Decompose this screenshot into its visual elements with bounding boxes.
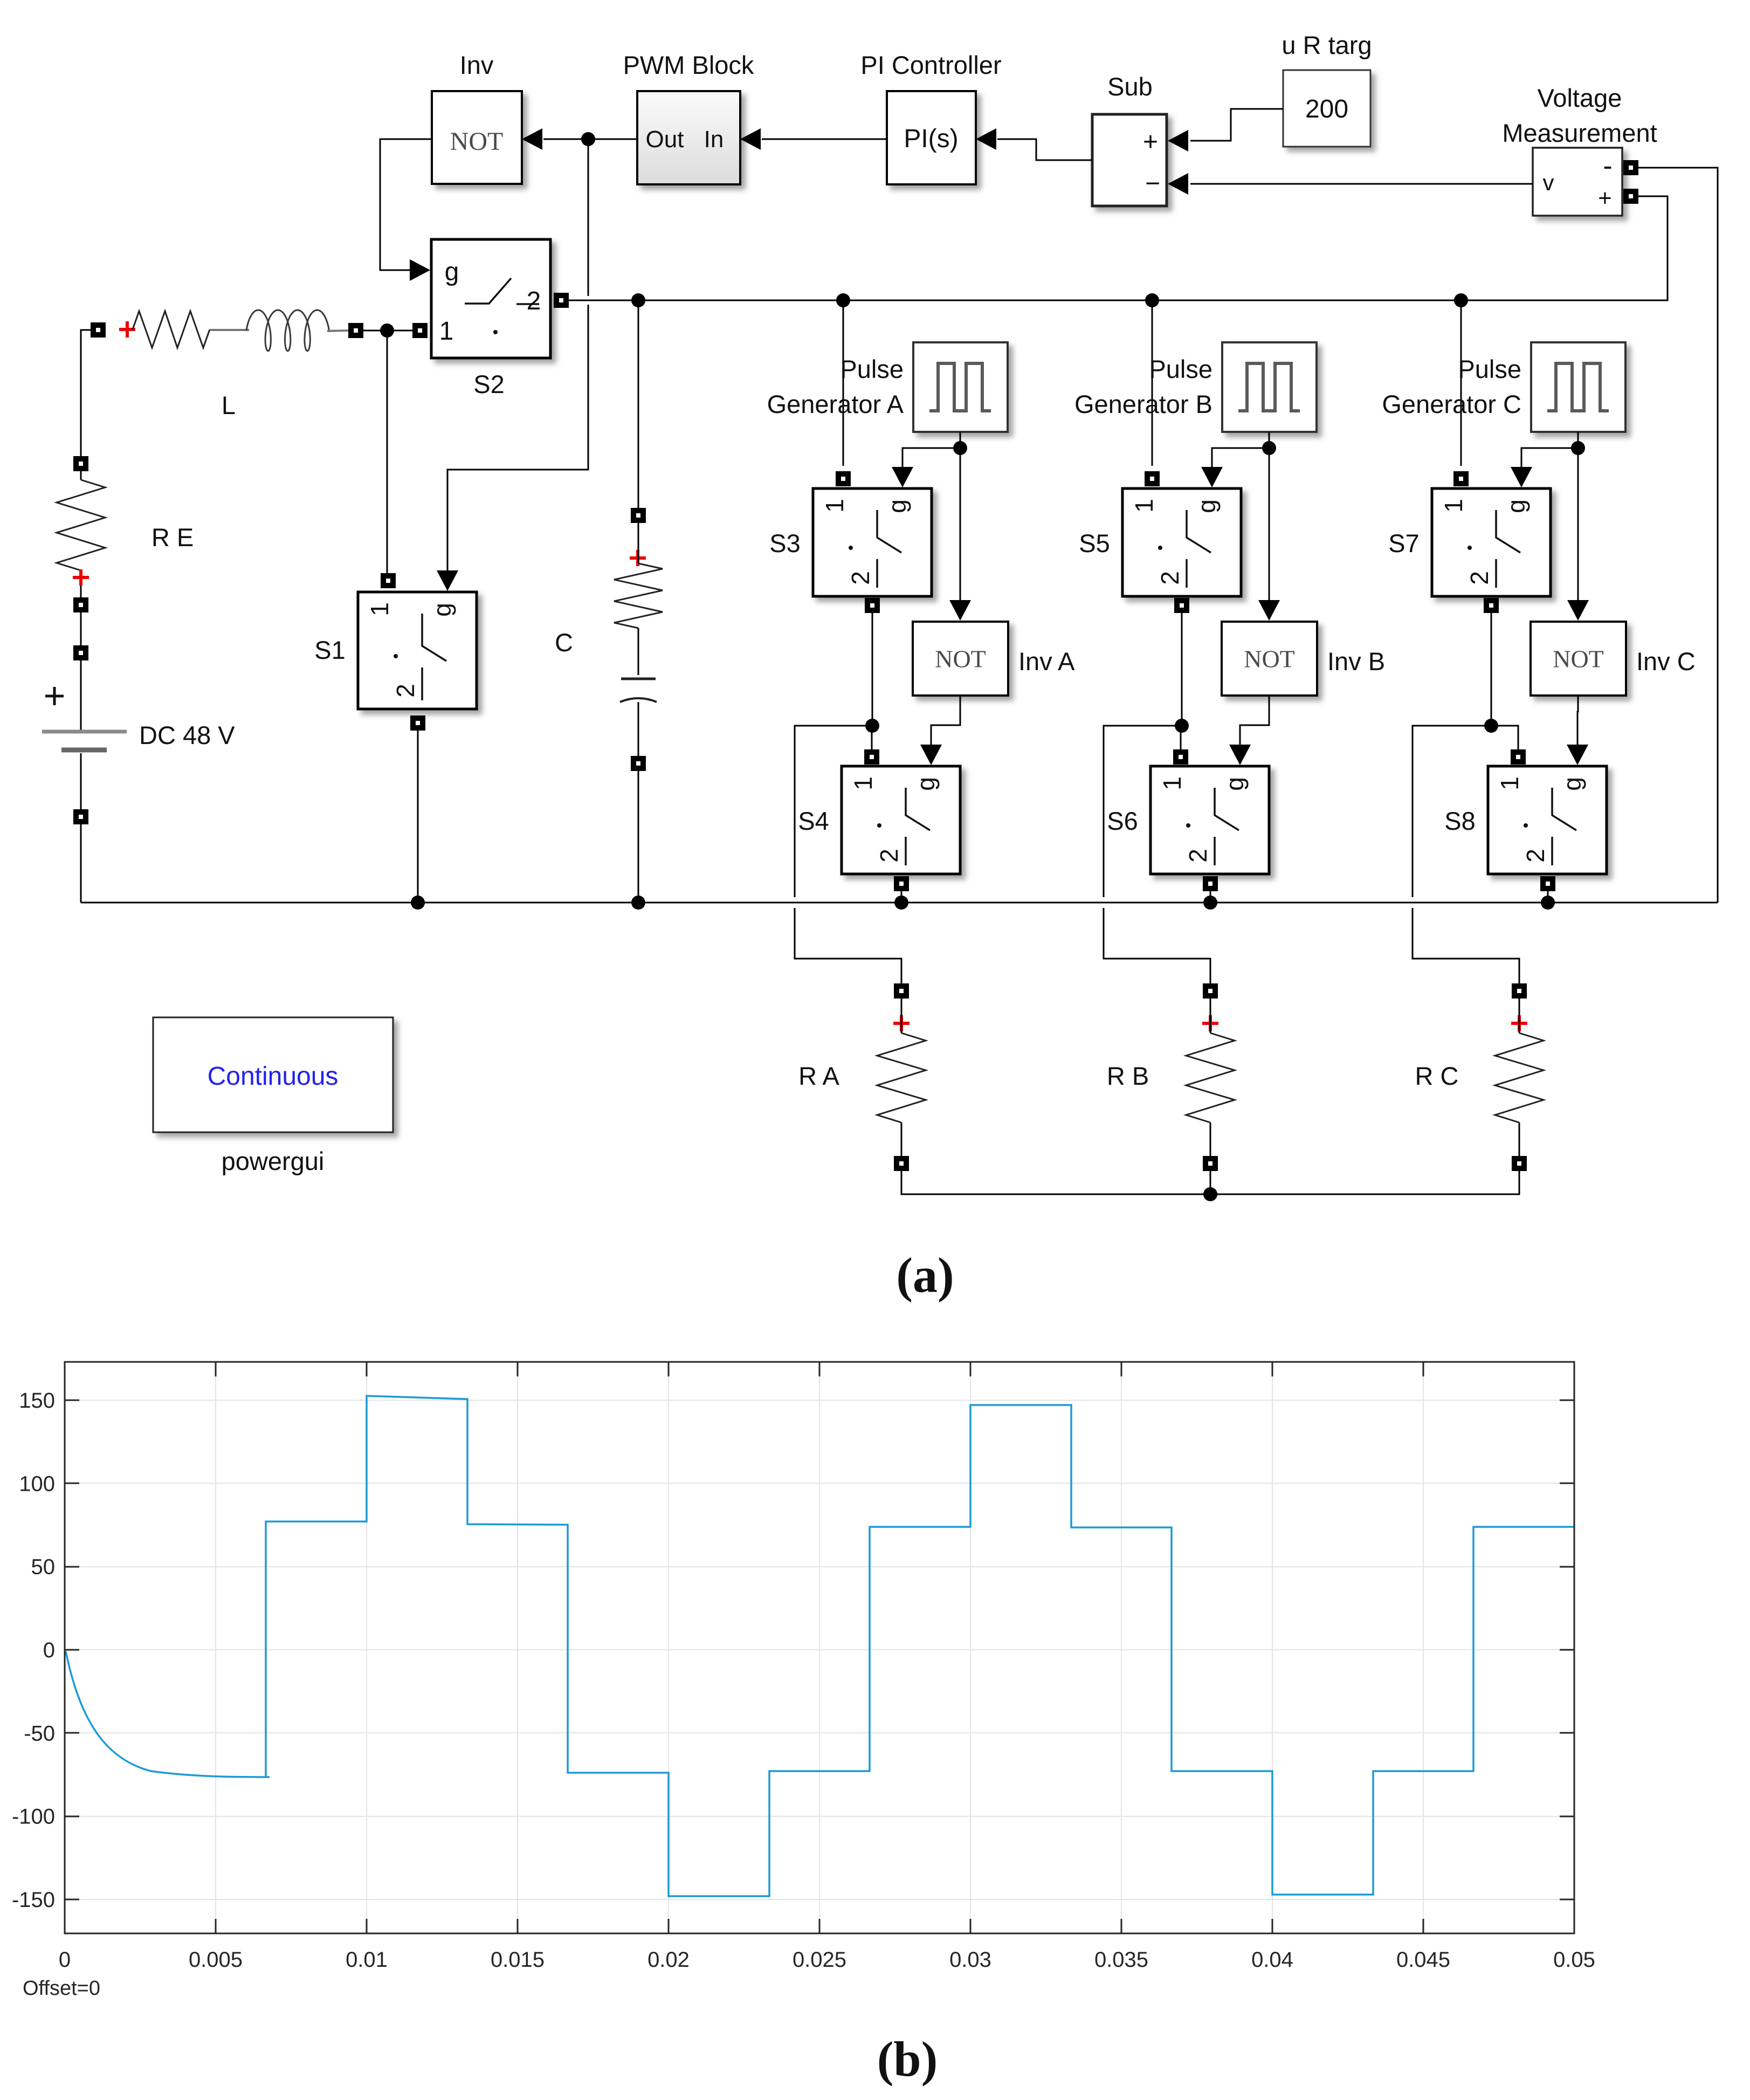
port S1 output 2 [410,715,425,731]
logic NOT block Inv C [1531,622,1626,696]
svg-text:In: In [704,126,724,153]
svg-text:R E: R E [151,523,194,552]
svg-text:g: g [883,499,911,513]
svg-text:Offset=0: Offset=0 [23,1977,100,2000]
wire junction B to load resistor R B [1104,726,1210,983]
svg-text:S8: S8 [1444,807,1476,835]
port S5 input 1 [1145,471,1160,486]
polarity plus of RL branch [119,321,135,338]
wire S8 output to bottom bus [1547,891,1549,903]
svg-text:0.01: 0.01 [346,1948,388,1972]
svg-text:0.03: 0.03 [949,1948,991,1972]
junction bus S6 [1203,896,1217,910]
svg-text:0.015: 0.015 [491,1948,545,1972]
port S6 input 1 [1173,749,1188,765]
svg-text:2: 2 [1156,571,1184,585]
wire S5 output to S6 input 1 [1181,613,1182,749]
port S4 input 1 [864,749,879,765]
voltage measurement block VM [1533,148,1622,216]
powergui block [153,1017,393,1132]
svg-text:150: 150 [19,1389,55,1413]
junction node after L [380,323,394,338]
svg-text:R A: R A [798,1062,839,1090]
svg-text:powergui: powergui [222,1147,325,1175]
label R A [798,1062,839,1090]
neutral rail joining load resistors [901,1171,1519,1194]
port C top [631,508,646,523]
wire inductor to right port [327,331,349,331]
constant block 200 [1283,70,1370,147]
wire C bottom to bus [638,771,639,903]
port R A bottom [894,1156,909,1171]
svg-text:0.005: 0.005 [189,1948,243,1972]
junction top bus phase B [1145,293,1159,307]
load resistor R A [877,999,926,1156]
svg-text:S1: S1 [314,636,346,664]
wire PI output to PWM In [740,128,887,150]
port RL branch left [91,322,106,338]
battery plus sign [45,687,64,705]
logic NOT block Inv A [913,622,1008,696]
svg-text:Inv A: Inv A [1018,647,1075,676]
svg-text:1: 1 [1158,776,1186,790]
port S7 output 2 [1484,598,1499,613]
svg-text:0.04: 0.04 [1251,1948,1293,1972]
svg-text:NOT: NOT [1244,645,1295,673]
wire Sub output to PI controller input [976,128,1092,160]
port RE bottom [73,597,88,612]
svg-text:Inv: Inv [460,51,494,79]
svg-text:-100: -100 [12,1805,55,1829]
svg-text:1: 1 [849,776,877,790]
svg-text:0.035: 0.035 [1094,1948,1148,1972]
polarity plus of RE [73,569,89,586]
wire PWM Out to NOT input [522,128,637,150]
svg-text:2: 2 [1465,571,1493,585]
label Pulse Generator C [1382,355,1521,418]
wire battery to ground bus [80,824,82,903]
port R B bottom [1203,1156,1218,1171]
junction bus S4 [894,896,908,910]
svg-text:2: 2 [875,849,903,863]
svg-text:Inv B: Inv B [1327,647,1385,676]
wire S6 output to bottom bus [1210,891,1211,903]
svg-text:L: L [222,391,236,419]
svg-text:2: 2 [527,287,541,315]
label Pulse Generator B [1074,355,1212,418]
battery DC 48 V symbol [42,660,127,809]
svg-text:2: 2 [391,684,419,698]
svg-text:Continuous: Continuous [208,1062,339,1091]
svg-text:PI(s): PI(s) [904,125,958,153]
chart plot area [65,1362,1574,1933]
svg-text:0: 0 [43,1638,55,1662]
wire top bus down to S3 port 1 [843,300,844,466]
port battery top [73,645,88,660]
waveform trace [66,1396,1574,1896]
junction top bus phase C [1454,293,1468,307]
wire S4 output to bottom bus [901,891,902,903]
caption (a) [896,1248,954,1303]
label DC 48 V [139,721,235,749]
wire pulse generator B to S5 gate and inverter [1201,432,1280,621]
junction under pulse generator B [1262,441,1276,455]
label Inv [460,51,494,79]
resistor of RL branch [133,311,210,348]
port S6 output 2 [1203,876,1218,891]
svg-text:0: 0 [59,1948,71,1972]
label S2 [473,370,505,398]
wire L to S2 input with junction to S1 [363,331,412,574]
wire left node down from RL to RE [81,330,98,456]
label S8 [1444,807,1476,835]
switch S3 [813,488,932,596]
svg-text:(b): (b) [877,2032,938,2087]
svg-text:S7: S7 [1388,529,1420,557]
polarity plus of C [630,550,646,566]
svg-text:Pulse: Pulse [1458,355,1521,383]
port S2 output 2 [554,293,569,308]
svg-text:S6: S6 [1107,807,1138,835]
port S3 input 1 [836,471,851,486]
svg-text:v: v [1543,170,1554,195]
svg-text:PI Controller: PI Controller [860,51,1001,79]
svg-text:+: + [1598,185,1612,211]
svg-text:(a): (a) [896,1248,954,1303]
svg-text:1: 1 [439,317,454,346]
switch S1 [358,592,477,709]
junction under pulse generator A [953,441,967,455]
capacitor plates of C branch [620,679,657,756]
pulse generator C [1531,342,1625,432]
switch S2 [431,239,550,358]
svg-text:S4: S4 [798,807,829,835]
svg-text:g: g [428,603,456,617]
svg-text:0.025: 0.025 [793,1948,846,1972]
label u R targ [1282,31,1372,59]
wire S2 output top bus to VM plus [569,196,1668,300]
port R B top [1203,983,1218,999]
svg-text:1: 1 [1130,499,1158,513]
svg-text:Measurement: Measurement [1502,119,1657,147]
svg-text:Pulse: Pulse [840,355,904,383]
sum block Sub [1092,114,1167,206]
port S1 input 1 [381,573,396,588]
port S3 output 2 [865,598,880,613]
junction top bus phase A [836,293,850,307]
svg-text:200: 200 [1305,95,1348,123]
switch S7 [1432,488,1551,596]
svg-text:Generator C: Generator C [1382,390,1521,418]
caption (b) [877,2032,938,2087]
switch S8 [1488,766,1607,874]
port RE top [73,456,88,471]
port battery bottom [73,809,88,824]
label Pulse Generator A [767,355,904,418]
junction bus S1 [411,896,425,910]
wire S3 output to S4 input 1 [872,613,872,749]
junction above S6 [1175,719,1189,733]
svg-text:2: 2 [1521,849,1549,863]
port C bottom [631,756,646,771]
svg-text:g: g [445,258,459,286]
svg-text:0.05: 0.05 [1553,1948,1595,1972]
svg-text:Generator B: Generator B [1074,390,1212,418]
label Inv A [1018,647,1075,676]
logic NOT block Inv B [1222,622,1317,696]
svg-text:R C: R C [1415,1062,1459,1090]
port R C bottom [1512,1156,1527,1171]
label S1 [314,636,346,664]
svg-text:-50: -50 [24,1722,55,1745]
svg-text:−: − [1145,169,1160,198]
svg-text:R B: R B [1107,1062,1149,1090]
ground return bus [81,902,1718,904]
svg-text:u R targ: u R targ [1282,31,1372,59]
junction top bus at C branch [631,293,645,307]
svg-text:50: 50 [31,1555,56,1579]
svg-text:Sub: Sub [1107,72,1153,101]
chart y tick labels [12,1389,55,1912]
junction neutral at R B [1203,1187,1217,1201]
port R A top [894,983,909,999]
port VM minus terminal [1623,160,1638,175]
wire pulse generator C to S7 gate and inverter [1511,432,1589,621]
svg-text:1: 1 [821,499,849,513]
wire pulse generator A to S3 gate and inverter [892,432,971,621]
svg-text:NOT: NOT [450,127,504,156]
junction above S8 [1484,719,1498,733]
wire Inv A output to S4 gate [920,696,960,765]
junction bus S8 [1541,896,1555,910]
port S2 input 1 [412,323,428,338]
wire S7 output to S8 input 1 [1491,613,1518,749]
inductor L [246,310,329,351]
wire VM minus down right side [1638,168,1718,903]
port S8 input 1 [1511,749,1526,765]
label PWM Block [623,51,754,79]
wire RE to battery [80,612,82,645]
svg-text:Voltage: Voltage [1538,84,1622,112]
label R B [1107,1062,1149,1090]
chart axes box and ticks [65,1362,1574,1933]
pulse generator A [913,342,1008,432]
label R C [1415,1062,1459,1090]
svg-text:g: g [1193,499,1221,513]
svg-text:+: + [1143,128,1158,156]
junction under pulse generator C [1571,441,1585,455]
svg-text:Pulse: Pulse [1149,355,1212,383]
label S4 [798,807,829,835]
load resistor R C [1495,999,1544,1156]
junction on PWM-NOT wire [581,132,595,146]
chart offset annotation [23,1977,100,2000]
port S4 output 2 [894,876,909,891]
port R C top [1512,983,1527,999]
switch S5 [1122,488,1241,596]
wire top bus to C branch [638,300,639,509]
pulse generator B [1222,342,1317,432]
switch S4 [842,766,960,874]
wire junction C to load resistor R C [1413,726,1519,983]
wire Inv C output to S8 gate [1567,696,1588,765]
label S7 [1388,529,1420,557]
label Voltage Measurement [1502,84,1657,147]
svg-text:1: 1 [366,602,394,616]
label Sub [1107,72,1153,101]
label R E [151,523,194,552]
svg-text:NOT: NOT [935,645,986,673]
logic NOT block U_Inv [432,91,522,184]
junction above S4 [865,719,879,733]
label powergui [222,1147,325,1175]
label Inv C [1636,647,1696,676]
wire VM output v to Sub minus input [1168,173,1533,195]
label S5 [1079,529,1110,557]
svg-text:DC 48 V: DC 48 V [139,721,235,749]
chart x tick labels [59,1948,1595,1972]
svg-text:g: g [1558,777,1586,791]
polarity plus of R B [1202,1015,1218,1031]
svg-text:-150: -150 [12,1888,55,1912]
svg-text:0.045: 0.045 [1396,1948,1450,1972]
wire resistor to inductor [210,329,249,331]
svg-text:PWM Block: PWM Block [623,51,754,79]
svg-text:S5: S5 [1079,529,1110,557]
svg-text:1: 1 [1496,776,1524,790]
svg-text:Generator A: Generator A [767,390,904,418]
svg-text:NOT: NOT [1553,645,1604,673]
label S6 [1107,807,1138,835]
wire junction A to load resistor R A [795,726,901,983]
port S5 output 2 [1174,598,1189,613]
label L [222,391,236,419]
svg-text:-: - [1603,150,1612,182]
polarity plus of R A [893,1015,910,1031]
svg-text:1: 1 [1439,499,1467,513]
svg-text:C: C [555,628,573,657]
port VM plus terminal [1623,189,1638,204]
svg-text:g: g [1502,499,1530,513]
wire S1 output to bottom bus [417,731,419,903]
svg-text:100: 100 [19,1472,55,1496]
svg-text:S3: S3 [769,529,801,557]
junction bus C [631,896,645,910]
subsystem PWM Block [637,91,740,184]
wire top bus down to S7 port 1 [1460,300,1462,466]
label S3 [769,529,801,557]
switch S6 [1150,766,1269,874]
polarity plus of R C [1511,1015,1527,1031]
wire Inv B output to S6 gate [1229,696,1269,765]
label C [555,628,573,657]
port S7 input 1 [1453,471,1469,486]
load resistor R B [1186,999,1235,1156]
svg-text:Inv C: Inv C [1636,647,1696,676]
wire NOT output to S2 gate [380,139,432,281]
svg-text:Out: Out [646,126,684,153]
label Inv B [1327,647,1385,676]
resistor RE [57,471,105,597]
svg-text:g: g [1221,777,1249,791]
wire top bus down to S5 port 1 [1152,300,1153,466]
controller block PI(s) [887,91,976,184]
label PI Controller [860,51,1001,79]
RC series resistor of C branch [614,523,663,675]
svg-text:2: 2 [846,571,874,585]
port L right [348,323,363,338]
svg-text:S2: S2 [473,370,505,398]
svg-text:0.02: 0.02 [647,1948,690,1972]
svg-text:2: 2 [1184,849,1212,863]
svg-text:g: g [912,777,940,791]
wire 200 to Sub plus input [1168,109,1283,152]
wire junction down to S1 gate [437,139,588,591]
port S8 output 2 [1540,876,1555,891]
